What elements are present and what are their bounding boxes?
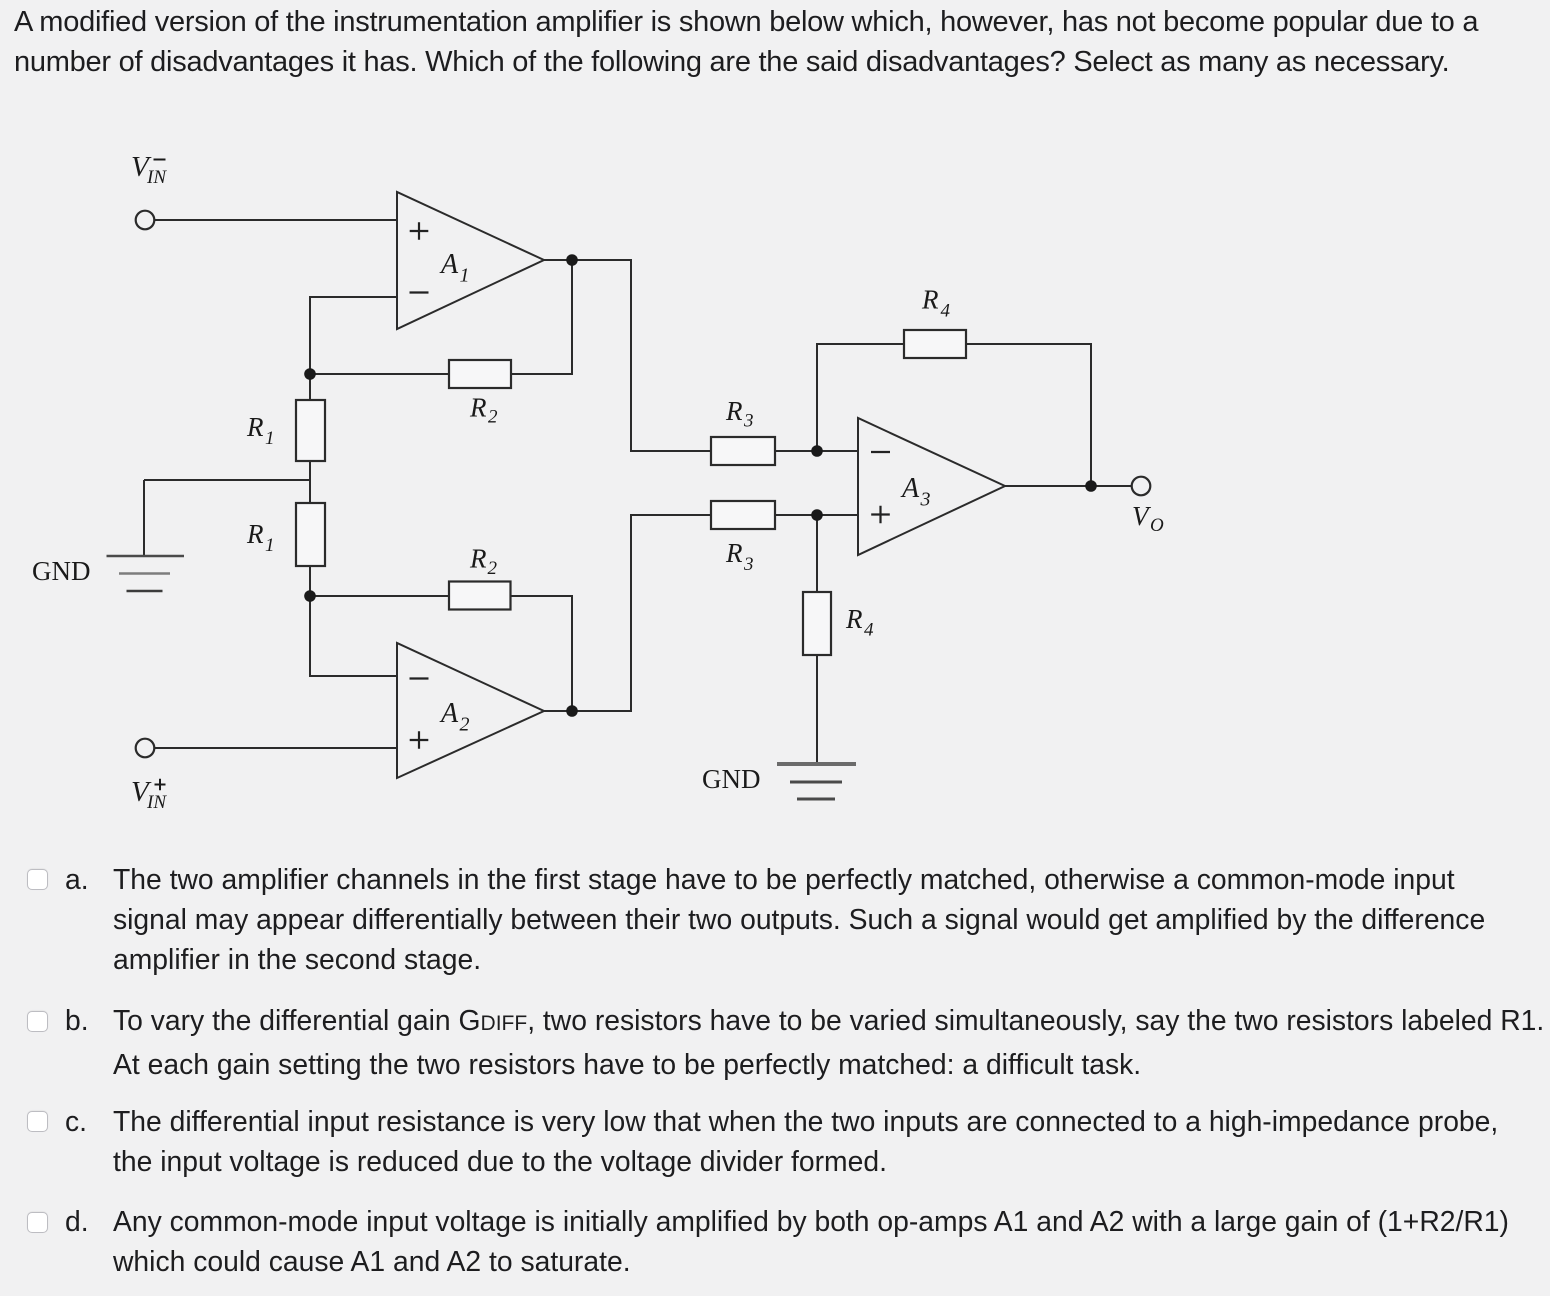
svg-text:2: 2 bbox=[488, 558, 498, 579]
svg-text:R: R bbox=[246, 412, 264, 442]
svg-text:3: 3 bbox=[920, 489, 931, 511]
svg-text:2: 2 bbox=[460, 714, 470, 736]
svg-text:R: R bbox=[725, 396, 743, 426]
svg-text:IN: IN bbox=[146, 167, 167, 188]
svg-text:A: A bbox=[439, 698, 459, 729]
svg-text:V: V bbox=[1132, 501, 1152, 531]
svg-text:1: 1 bbox=[265, 535, 275, 556]
svg-text:R: R bbox=[469, 393, 487, 423]
svg-text:R: R bbox=[725, 538, 743, 568]
svg-text:R: R bbox=[246, 519, 264, 549]
svg-text:A: A bbox=[900, 473, 920, 504]
svg-text:R: R bbox=[469, 544, 487, 574]
svg-text:4: 4 bbox=[941, 301, 951, 322]
svg-text:3: 3 bbox=[743, 554, 754, 575]
svg-text:1: 1 bbox=[265, 428, 275, 449]
svg-text:O: O bbox=[1150, 515, 1164, 536]
svg-text:R: R bbox=[921, 285, 939, 315]
svg-text:GND: GND bbox=[32, 556, 91, 586]
svg-text:2: 2 bbox=[488, 407, 498, 428]
svg-text:IN: IN bbox=[146, 792, 167, 813]
svg-text:1: 1 bbox=[460, 265, 470, 287]
svg-text:3: 3 bbox=[743, 411, 754, 432]
svg-text:A: A bbox=[439, 249, 459, 280]
svg-text:R: R bbox=[845, 604, 863, 634]
svg-text:4: 4 bbox=[864, 620, 874, 641]
svg-text:GND: GND bbox=[702, 764, 761, 794]
